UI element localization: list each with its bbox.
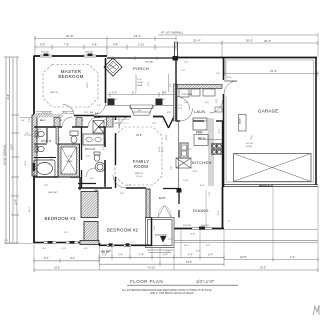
bedroom2 window 2 bbox=[124, 244, 131, 246]
dining kitchen divider wall bbox=[163, 188, 181, 190]
svg-text:2'-0": 2'-0" bbox=[25, 133, 29, 135]
bottom extension lines bbox=[34, 185, 318, 271]
svg-text:BEDROOM: BEDROOM bbox=[58, 74, 83, 79]
bedroom2 left wall bbox=[99, 243, 101, 246]
bedroom2 door arc bbox=[113, 175, 126, 188]
svg-text:2'-4": 2'-4" bbox=[170, 83, 172, 87]
svg-text:41'-10" OVERALL: 41'-10" OVERALL bbox=[3, 144, 7, 165]
svg-text:ENT.: ENT. bbox=[159, 196, 167, 200]
svg-text:5'-4": 5'-4" bbox=[42, 112, 46, 114]
garage inner wall lines bbox=[226, 60, 314, 182]
bedroom2 left closet hatch 1 bbox=[81, 192, 98, 218]
closet shelf lines bbox=[36, 112, 74, 114]
laundry dn box bbox=[215, 107, 222, 112]
master bottom wall hatch bbox=[34, 114, 63, 118]
dimension line top segmented bbox=[35, 46, 176, 48]
svg-text:LAUN.: LAUN. bbox=[194, 110, 207, 114]
master door arc bbox=[94, 103, 106, 115]
svg-text:9'-8": 9'-8" bbox=[218, 211, 220, 215]
svg-text:SLAB: SLAB bbox=[137, 84, 143, 87]
svg-text:2'-8": 2'-8" bbox=[21, 120, 25, 122]
window master top 2 bbox=[84, 55, 96, 57]
dimension line top right 31-4 bbox=[176, 42, 318, 44]
svg-text:LOW WALL: LOW WALL bbox=[181, 93, 193, 96]
dimension vline left 3 bbox=[12, 57, 14, 243]
family west wall bbox=[115, 116, 117, 188]
washer dryer boxes bbox=[179, 89, 189, 97]
bedroom3 window 1 bbox=[44, 242, 56, 244]
svg-text:6'-8": 6'-8" bbox=[51, 156, 53, 160]
garage door arc bbox=[224, 81, 237, 94]
oven boxes with circles bbox=[212, 144, 222, 155]
bedroom2 top wall bbox=[78, 187, 146, 189]
svg-text:6'-1": 6'-1" bbox=[290, 255, 295, 259]
svg-text:3'-8": 3'-8" bbox=[40, 43, 45, 47]
watermark M bbox=[313, 305, 319, 315]
svg-text:9x7 OH: 9x7 OH bbox=[246, 143, 253, 145]
svg-text:BEDROOM #2: BEDROOM #2 bbox=[107, 228, 138, 233]
porch slab edge bbox=[105, 105, 176, 107]
svg-text:2'-4": 2'-4" bbox=[188, 254, 193, 257]
svg-text:WOOD B+B: WOOD B+B bbox=[259, 185, 273, 188]
svg-text:2'-0": 2'-0" bbox=[178, 105, 182, 107]
svg-text:8'-1": 8'-1" bbox=[132, 92, 137, 95]
bath1 toilet by shower bbox=[70, 131, 78, 143]
svg-text:6'-8": 6'-8" bbox=[167, 112, 171, 114]
laundry east door arc bbox=[210, 100, 223, 113]
svg-text:MDF 16: MDF 16 bbox=[50, 92, 59, 94]
svg-text:3'-4": 3'-4" bbox=[187, 149, 191, 151]
svg-text:FLOOR PLAN: FLOOR PLAN bbox=[130, 279, 163, 284]
tub window bbox=[33, 163, 35, 171]
svg-text:8'-4": 8'-4" bbox=[200, 185, 205, 187]
svg-text:8'-0": 8'-0" bbox=[25, 161, 27, 165]
left dim ticks bbox=[4, 57, 19, 243]
exterior left wall bbox=[33, 56, 35, 243]
title underline bbox=[127, 284, 238, 286]
svg-text:20'-0": 20'-0" bbox=[246, 39, 253, 43]
kitchen wall right bbox=[222, 121, 224, 187]
svg-text:16x16: 16x16 bbox=[240, 118, 242, 124]
bed3 window dim texts bbox=[42, 248, 88, 250]
bath2 tub circle bbox=[95, 162, 105, 172]
svg-text:BATH #1: BATH #1 bbox=[41, 139, 52, 143]
sprinkle tiny dim texts bbox=[25, 70, 220, 234]
svg-text:ADD 4" FOR BRICK LEDGE AS REQD: ADD 4" FOR BRICK LEDGE AS REQD bbox=[150, 292, 194, 295]
bath2 door arc bbox=[86, 168, 95, 177]
svg-text:2'-8": 2'-8" bbox=[184, 62, 189, 64]
exterior wall top master bbox=[34, 55, 108, 57]
master bottom wall bbox=[34, 115, 94, 117]
dimension ticks top bbox=[35, 45, 176, 50]
bedroom2 bottom wall bbox=[99, 244, 152, 246]
bath2 south wall bbox=[78, 183, 96, 185]
svg-text:SHWR: SHWR bbox=[66, 161, 73, 163]
bedroom3 door arc bbox=[58, 165, 70, 177]
entry V notch bbox=[163, 117, 174, 129]
svg-text:10'-0": 10'-0" bbox=[166, 134, 168, 140]
svg-text:ROOM: ROOM bbox=[134, 164, 148, 169]
svg-text:5'-0": 5'-0" bbox=[184, 245, 189, 247]
bath1 wc wall bbox=[46, 128, 48, 143]
dining right wall bbox=[222, 187, 224, 229]
svg-text:9' CLG: 9' CLG bbox=[136, 176, 143, 178]
svg-text:4'-0": 4'-0" bbox=[162, 148, 164, 152]
bottom dim line 4 overall bbox=[34, 269, 318, 271]
svg-text:5'-0": 5'-0" bbox=[97, 105, 101, 107]
garage door X bbox=[234, 154, 312, 182]
window master top 1 bbox=[40, 55, 52, 57]
svg-text:3040 SH: 3040 SH bbox=[183, 225, 191, 227]
bath2 west wall bbox=[81, 127, 83, 160]
right dim line upper bbox=[224, 229, 318, 231]
svg-text:3'-0": 3'-0" bbox=[115, 123, 119, 125]
svg-text:7'-8": 7'-8" bbox=[64, 43, 69, 47]
svg-text:SMK DET: SMK DET bbox=[48, 192, 58, 194]
shower box bbox=[58, 144, 80, 177]
hall west wall bbox=[104, 127, 106, 187]
svg-text:4" HI: 4" HI bbox=[137, 79, 142, 81]
svg-text:2'-6": 2'-6" bbox=[120, 193, 124, 195]
svg-text:12'-4": 12'-4" bbox=[15, 199, 18, 205]
svg-text:KITCHEN: KITCHEN bbox=[192, 160, 212, 165]
svg-text:5'-8": 5'-8" bbox=[171, 166, 173, 170]
bath2 counter bbox=[83, 134, 104, 145]
bedroom2 right wall hatch bbox=[146, 189, 150, 218]
svg-text:31'-4": 31'-4" bbox=[193, 39, 201, 43]
foyer tile lines bbox=[104, 120, 129, 124]
bottom dim line 2 bbox=[34, 260, 99, 262]
svg-text:3'-6": 3'-6" bbox=[29, 118, 31, 122]
svg-text:3'-0": 3'-0" bbox=[154, 226, 156, 230]
svg-text:SHWR: SHWR bbox=[95, 117, 102, 119]
left wall hatched band bbox=[32, 115, 37, 176]
svg-text:2'-0": 2'-0" bbox=[178, 108, 182, 110]
svg-text:2'-8": 2'-8" bbox=[163, 245, 168, 247]
svg-text:3'-4": 3'-4" bbox=[163, 91, 165, 95]
closet door arcs bbox=[62, 117, 72, 127]
dining window bbox=[192, 228, 212, 230]
dining bottom wall bbox=[174, 228, 224, 230]
svg-text:13'-8": 13'-8" bbox=[7, 94, 10, 100]
dimension line top overall bbox=[158, 34, 318, 36]
porch column right bbox=[156, 99, 163, 106]
svg-text:W.C.: W.C. bbox=[37, 129, 42, 131]
garage door opening bbox=[234, 154, 312, 182]
porch steps bbox=[130, 105, 153, 115]
dining dim vline bbox=[205, 190, 207, 228]
svg-text:5'-6": 5'-6" bbox=[181, 70, 185, 72]
svg-text:4": 4" bbox=[228, 221, 230, 223]
bedroom3 top wall bbox=[34, 176, 80, 178]
svg-text:21'-8": 21'-8" bbox=[66, 34, 74, 38]
bath1 hall wall bbox=[56, 127, 59, 144]
svg-text:47'-10" OVERALL: 47'-10" OVERALL bbox=[161, 31, 184, 35]
svg-text:PORCH: PORCH bbox=[133, 66, 149, 71]
svg-text:20'-4": 20'-4" bbox=[264, 39, 271, 43]
front wall right segment bbox=[153, 116, 163, 118]
svg-text:2'-10": 2'-10" bbox=[138, 43, 145, 47]
garage top wall bbox=[176, 57, 317, 59]
front door arc bbox=[119, 117, 131, 129]
svg-text:2'-4": 2'-4" bbox=[208, 254, 213, 257]
bedroom3 bottom wall bbox=[34, 242, 80, 244]
svg-text:DOOR: DOOR bbox=[246, 146, 253, 148]
bedroom3 window 2 bbox=[66, 242, 78, 244]
walkway double line bbox=[174, 241, 318, 243]
svg-text:2'-6": 2'-6" bbox=[219, 129, 221, 133]
svg-text:3040 SH: 3040 SH bbox=[201, 225, 209, 227]
left dim stubs bbox=[20, 118, 34, 136]
dimension vline left 2 bbox=[9, 57, 11, 243]
svg-text:10'-4": 10'-4" bbox=[11, 144, 14, 150]
bath1 toilet 2 bbox=[35, 146, 44, 152]
bath2 shower stall bbox=[93, 121, 104, 134]
svg-text:LTE F: LTE F bbox=[87, 82, 89, 88]
svg-text:2'-0": 2'-0" bbox=[86, 156, 90, 158]
svg-text:16'-1": 16'-1" bbox=[134, 34, 142, 38]
laundry west door arc bbox=[177, 97, 191, 111]
svg-text:6'-0": 6'-0" bbox=[63, 112, 67, 114]
svg-text:3040 SH: 3040 SH bbox=[85, 52, 93, 54]
laundry south wall bbox=[176, 120, 223, 122]
svg-text:3'-6": 3'-6" bbox=[205, 102, 209, 104]
svg-text:7'-4": 7'-4" bbox=[139, 254, 144, 257]
entry doors bbox=[158, 206, 171, 218]
closet hatch a bbox=[54, 118, 60, 127]
svg-text:TILE: TILE bbox=[68, 156, 73, 158]
bedroom2 east wall to stoop bbox=[151, 218, 153, 247]
sprinkle tiny dim texts 2 bbox=[66, 99, 221, 163]
svg-text:BEDROOM #3: BEDROOM #3 bbox=[45, 216, 76, 221]
svg-text:2'-8": 2'-8" bbox=[112, 92, 117, 95]
svg-text:13'-4": 13'-4" bbox=[159, 146, 161, 152]
svg-text:21'-4": 21'-4" bbox=[270, 69, 277, 73]
bottom dim ticks 1 bbox=[99, 255, 224, 260]
kitchen range bbox=[180, 143, 188, 158]
svg-text:2'-4": 2'-4" bbox=[118, 254, 123, 257]
kitchen pantry box bbox=[193, 118, 207, 130]
svg-text:BATH #2: BATH #2 bbox=[85, 147, 96, 151]
left wall extension to dims bbox=[5, 243, 34, 245]
extra dim ticks bbox=[34, 37, 318, 273]
svg-text:29'-8": 29'-8" bbox=[136, 134, 142, 137]
svg-text:4'-11: 4'-11 bbox=[227, 77, 232, 79]
svg-text:3'-8": 3'-8" bbox=[216, 99, 218, 103]
stoop box bbox=[146, 218, 175, 248]
laundry door arc bbox=[180, 109, 193, 122]
svg-text:4'-6": 4'-6" bbox=[209, 192, 211, 196]
entry east wall bbox=[178, 189, 180, 218]
svg-text:2'-8": 2'-8" bbox=[163, 118, 165, 122]
svg-text:4'-0": 4'-0" bbox=[59, 137, 61, 141]
garage right wall bbox=[315, 57, 317, 185]
kitchen island X bbox=[176, 158, 191, 168]
front wall left segment bbox=[94, 116, 131, 118]
bath1 tub bbox=[34, 160, 55, 177]
svg-text:GARAGE: GARAGE bbox=[258, 109, 279, 114]
svg-text:3'-8": 3'-8" bbox=[92, 43, 97, 47]
svg-text:11'-4": 11'-4" bbox=[29, 207, 31, 212]
svg-text:41'-10": 41'-10" bbox=[148, 266, 156, 269]
bottom dim line 3 bbox=[99, 263, 224, 265]
svg-text:2'-4": 2'-4" bbox=[163, 254, 168, 257]
bedroom3 bottom wall hatch bbox=[80, 241, 99, 245]
bedroom2 window 1 bbox=[107, 244, 114, 246]
porch dim line bbox=[107, 94, 176, 96]
svg-text:3'-0": 3'-0" bbox=[103, 146, 105, 150]
family tray ceiling dashed bbox=[115, 127, 162, 185]
dimension vline left 4 bbox=[16, 57, 18, 243]
svg-text:2'-4": 2'-4" bbox=[184, 102, 188, 104]
dimension line garage width bbox=[225, 73, 318, 75]
svg-text:6'-4": 6'-4" bbox=[127, 185, 131, 187]
svg-text:8'-4": 8'-4" bbox=[44, 257, 49, 260]
hall wall below master bbox=[34, 126, 106, 128]
right dim line lower bbox=[224, 259, 318, 261]
porch right wall bbox=[175, 57, 177, 84]
wall porch to front bbox=[175, 84, 177, 121]
svg-text:16'-8": 16'-8" bbox=[54, 266, 60, 269]
bottom dim line 1 bbox=[99, 256, 224, 258]
master bedroom right wall bbox=[105, 58, 107, 103]
kitchen counter lines right bbox=[208, 118, 210, 186]
fridge box bbox=[194, 135, 208, 146]
svg-text:26'-9": 26'-9" bbox=[260, 266, 266, 269]
laundry west wall hatch bbox=[174, 84, 178, 121]
left hall texts bbox=[162, 91, 165, 152]
svg-text:4'-6": 4'-6" bbox=[90, 178, 94, 180]
svg-text:2'-8": 2'-8" bbox=[44, 185, 48, 187]
svg-text:2'-8": 2'-8" bbox=[152, 123, 156, 125]
master tray ceiling dashed bbox=[43, 65, 98, 108]
ac closet blob bbox=[177, 189, 182, 193]
fireplace diamond bbox=[104, 58, 122, 76]
dimension line top left bbox=[35, 38, 176, 40]
stoop steps bbox=[147, 250, 173, 253]
porch center vline bbox=[135, 74, 137, 91]
svg-text:6'-0": 6'-0" bbox=[193, 171, 197, 173]
svg-text:1/4"=1'-0": 1/4"=1'-0" bbox=[196, 279, 215, 284]
svg-text:STOOP: STOOP bbox=[155, 233, 167, 237]
porch column left bbox=[108, 99, 115, 106]
garage left wall bbox=[223, 57, 225, 187]
svg-text:W.I.C.: W.I.C. bbox=[40, 120, 46, 122]
svg-text:DINING: DINING bbox=[193, 208, 209, 213]
svg-text:1'-6": 1'-6" bbox=[216, 73, 220, 75]
svg-text:3'-0": 3'-0" bbox=[166, 251, 171, 253]
svg-text:10'-8": 10'-8" bbox=[183, 180, 189, 182]
garage column box bbox=[239, 115, 247, 132]
closet hatch b bbox=[76, 118, 82, 127]
svg-text:BRK ABV: BRK ABV bbox=[145, 61, 154, 64]
svg-text:5'-0": 5'-0" bbox=[206, 245, 211, 247]
step marker triangle bbox=[160, 236, 167, 243]
porch top beam bbox=[107, 57, 176, 59]
chimney stub above wall bbox=[175, 42, 178, 58]
svg-text:5'-4": 5'-4" bbox=[42, 248, 46, 250]
extension lines top bbox=[35, 33, 318, 71]
bedroom3 right wall bbox=[79, 177, 81, 190]
svg-text:SMK DT: SMK DT bbox=[135, 173, 144, 175]
svg-text:20'-8": 20'-8" bbox=[240, 255, 247, 259]
porch beam ticks bbox=[113, 57, 157, 61]
svg-text:4'-0": 4'-0" bbox=[84, 248, 88, 250]
svg-text:10'-8": 10'-8" bbox=[186, 261, 192, 264]
svg-text:16'-8": 16'-8" bbox=[190, 234, 196, 236]
kitchen counter edge left bbox=[178, 122, 180, 188]
svg-text:2'-8": 2'-8" bbox=[84, 112, 88, 114]
svg-text:3040 SH: 3040 SH bbox=[41, 52, 49, 54]
bath2 east wall bbox=[104, 140, 106, 184]
svg-text:2'-3": 2'-3" bbox=[102, 254, 107, 257]
bedroom2 left closet hatch 2 bbox=[84, 222, 98, 245]
dimension vline far left overall bbox=[5, 57, 7, 243]
svg-text:CONC: CONC bbox=[137, 82, 144, 84]
svg-text:4'-8": 4'-8" bbox=[113, 43, 118, 47]
bath2 toilet bbox=[94, 152, 100, 161]
svg-text:PTRY: PTRY bbox=[196, 131, 203, 135]
garage bottom wall bbox=[224, 184, 318, 186]
svg-text:8'-4": 8'-4" bbox=[70, 257, 75, 260]
svg-text:6'-4": 6'-4" bbox=[196, 251, 201, 253]
svg-text:5'-0": 5'-0" bbox=[62, 248, 66, 250]
closet hatch c bbox=[107, 117, 114, 127]
svg-text:9'-0": 9'-0" bbox=[64, 232, 68, 234]
bath1 toilet 1 bbox=[35, 131, 44, 137]
laundry top counter bbox=[177, 85, 222, 89]
